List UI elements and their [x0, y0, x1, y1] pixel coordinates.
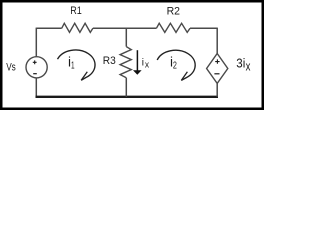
diamond plus sign	[215, 59, 219, 63]
resistor R2	[156, 23, 190, 32]
wire left below Vs	[35, 78, 37, 97]
resistor R1	[62, 23, 93, 32]
dependent source diamond	[207, 54, 228, 84]
Vs minus sign	[33, 73, 37, 75]
svg-text:2: 2	[173, 61, 177, 72]
svg-text:x: x	[145, 60, 150, 70]
wire left above Vs	[35, 28, 37, 57]
resistor R3	[120, 47, 131, 78]
Vs plus sign	[33, 60, 37, 64]
svg-text:x: x	[246, 60, 251, 74]
diamond minus sign	[214, 73, 219, 75]
mesh current i2 arrowhead	[181, 72, 187, 81]
wire bottom	[36, 96, 219, 98]
svg-text:1: 1	[71, 61, 75, 72]
wire top-right segment	[190, 27, 217, 29]
wire right branch top	[216, 28, 218, 54]
svg-text:3i: 3i	[236, 56, 245, 70]
svg-text:R1: R1	[70, 5, 82, 17]
border frame	[1, 1, 263, 109]
current ix arrow	[136, 50, 138, 70]
wire middle branch bottom	[125, 78, 127, 97]
ix arrowhead	[133, 70, 142, 75]
svg-text:R2: R2	[167, 5, 180, 17]
mesh current i1 arrowhead	[81, 72, 87, 81]
svg-text:Vs: Vs	[6, 62, 16, 74]
voltage source Vs circle	[26, 57, 47, 78]
mesh current i2 arc	[157, 50, 195, 80]
wire top-left segment	[36, 27, 61, 29]
wire top-middle segment	[93, 27, 156, 29]
wire middle branch top	[125, 28, 127, 46]
svg-text:i: i	[142, 57, 144, 68]
wire right branch bottom	[216, 83, 218, 96]
mesh current i1 arc	[58, 50, 96, 80]
svg-text:R3: R3	[103, 55, 116, 67]
